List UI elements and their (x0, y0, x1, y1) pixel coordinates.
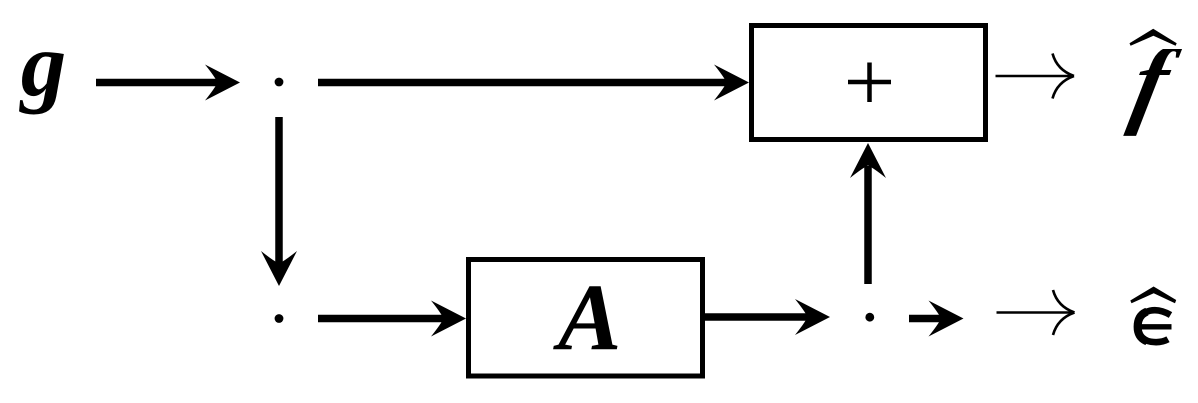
svg-text:g: g (19, 14, 66, 115)
svg-text:A: A (553, 265, 621, 371)
